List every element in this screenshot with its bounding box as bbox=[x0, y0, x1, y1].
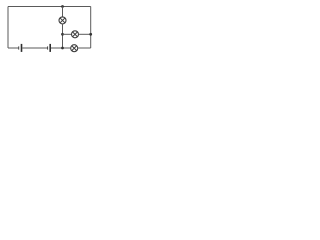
battery cell B2 short plate bbox=[47, 46, 49, 49]
node D junction dot on bottom wire bbox=[61, 47, 64, 50]
lamp L1 cross bbox=[60, 18, 65, 23]
lamp L1 circle bbox=[59, 17, 66, 24]
wire top: left corner to right corner bbox=[8, 6, 91, 8]
wire left edge bbox=[7, 7, 9, 49]
wire right edge bbox=[90, 7, 92, 49]
battery cell B2 long plate bbox=[49, 44, 51, 52]
node C junction dot bbox=[61, 33, 64, 36]
battery cell B1 long plate bbox=[21, 44, 23, 52]
wire bottom: lamp L3 to right corner bbox=[78, 47, 91, 49]
wire bottom: B1 to B2 bbox=[22, 47, 47, 49]
wire: lamp L1 down to node D on bottom wire bbox=[62, 24, 64, 48]
lamp L2 circle bbox=[72, 31, 79, 38]
wire branch: node C to lamp L2 bbox=[63, 33, 72, 35]
node A junction dot on top wire bbox=[61, 5, 64, 8]
wire stub: node A down to lamp L1 bbox=[62, 7, 64, 17]
wire bottom: left corner to battery B1 bbox=[8, 47, 18, 49]
wire branch: lamp L2 to node B on right edge bbox=[79, 33, 91, 35]
node B junction dot on right edge bbox=[89, 33, 92, 36]
lamp L3 circle bbox=[71, 45, 78, 52]
lamp L3 cross bbox=[72, 46, 77, 51]
battery cell B1 short plate bbox=[18, 46, 20, 49]
lamp L2 cross bbox=[73, 32, 78, 37]
wire bottom: B2 to lamp L3 bbox=[51, 47, 71, 49]
